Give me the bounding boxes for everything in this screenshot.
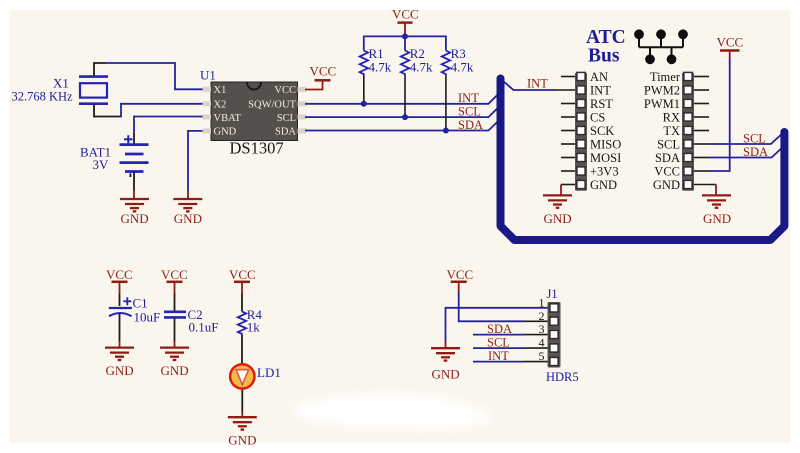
resistor R3 <box>442 51 450 76</box>
svg-text:GND: GND <box>703 211 731 226</box>
ground (left header) <box>560 185 562 196</box>
svg-text:VCC: VCC <box>274 85 296 96</box>
ground (U1) <box>173 199 202 211</box>
labels right header <box>644 70 681 192</box>
wire: INT to ATC header <box>503 81 556 91</box>
wire: crystal bottom to U1 X2 <box>94 104 121 117</box>
labels left header <box>590 70 621 192</box>
ground (LD1) <box>228 417 257 429</box>
battery BAT1 <box>120 145 149 172</box>
pins left header <box>577 72 585 188</box>
svg-text:+3V3: +3V3 <box>590 165 619 179</box>
wire: SCL net <box>305 106 500 117</box>
notch U1 <box>247 83 261 90</box>
svg-text:SDA: SDA <box>458 118 483 132</box>
resistor R4 <box>238 312 246 335</box>
header J1 bar <box>548 302 561 368</box>
svg-text:C1: C1 <box>133 296 148 311</box>
svg-text:SDA: SDA <box>487 322 512 336</box>
svg-text:GND: GND <box>544 211 572 226</box>
wire: BAT1 plus to U1 VBAT <box>134 116 203 118</box>
svg-text:GND: GND <box>106 363 134 378</box>
svg-text:SCK: SCK <box>590 124 614 138</box>
svg-text:AN: AN <box>590 70 608 84</box>
svg-text:INT: INT <box>458 91 479 105</box>
wire J1 pin1 to ground <box>446 308 548 341</box>
pin stubs left header <box>561 77 575 185</box>
svg-text:1k: 1k <box>247 320 261 335</box>
bus thick wire <box>501 79 785 241</box>
svg-text:MISO: MISO <box>590 138 621 152</box>
wire VCC to J1 pin2 <box>459 292 524 322</box>
wire: BAT1 minus to ground <box>133 172 135 191</box>
svg-text:LD1: LD1 <box>257 365 281 380</box>
plus sign BAT1 <box>124 135 133 143</box>
svg-text:SDA: SDA <box>743 145 768 159</box>
wire R4 to LED <box>241 335 243 364</box>
wire: U1 GND pin to ground <box>188 131 203 191</box>
header J3 right (ATC) bar <box>682 73 694 191</box>
svg-text:SDA: SDA <box>275 127 296 138</box>
svg-text:INT: INT <box>590 84 611 98</box>
wire C2 to ground <box>174 319 176 342</box>
junction R1/INT <box>361 101 367 107</box>
svg-text:VCC: VCC <box>106 267 133 282</box>
svg-text:5: 5 <box>539 349 545 363</box>
svg-text:PWM2: PWM2 <box>644 84 680 98</box>
svg-text:Timer: Timer <box>650 70 681 84</box>
svg-text:J1: J1 <box>547 287 558 301</box>
wire LED to ground <box>241 390 243 412</box>
ground (C2) <box>160 348 189 360</box>
svg-text:0.1uF: 0.1uF <box>189 320 219 335</box>
svg-text:32.768 KHz: 32.768 KHz <box>12 90 74 104</box>
svg-text:SCL: SCL <box>458 104 481 118</box>
svg-text:VCC: VCC <box>447 267 474 282</box>
svg-text:1: 1 <box>539 295 545 309</box>
svg-text:U1: U1 <box>200 68 216 83</box>
plus sign C1 <box>123 297 131 305</box>
wire SCL to J1 pin4 <box>473 347 524 349</box>
junction rail/R2 <box>402 33 408 39</box>
svg-text:INT: INT <box>488 349 509 363</box>
wire INT to J1 pin5 <box>473 361 524 363</box>
crystal X1 <box>79 77 108 104</box>
LED LD1 <box>230 364 254 388</box>
wire: SCL to right bus <box>709 133 783 144</box>
resistor R1 <box>360 51 368 76</box>
pin labels U1 <box>214 85 297 138</box>
op IC U1 DS1307 body <box>211 82 298 141</box>
power VCC (U1) <box>305 80 323 89</box>
svg-text:VCC: VCC <box>310 64 337 79</box>
svg-text:SCL: SCL <box>487 335 510 349</box>
wire SDA to J1 pin3 <box>473 334 524 336</box>
svg-text:VCC: VCC <box>717 35 744 50</box>
junction R2/SCL <box>402 114 408 120</box>
svg-text:RX: RX <box>663 111 680 125</box>
pins right header <box>684 72 692 188</box>
svg-text:GND: GND <box>121 211 149 226</box>
ground (right header) <box>715 185 717 196</box>
watermark blur <box>293 394 493 430</box>
svg-text:SCL: SCL <box>657 138 680 152</box>
power VCC (pullups) <box>404 23 406 35</box>
svg-text:VCC: VCC <box>229 267 256 282</box>
pins U1 right <box>298 87 307 134</box>
svg-text:PWM1: PWM1 <box>644 97 680 111</box>
pin numbers J1 <box>539 295 545 363</box>
svg-text:X1: X1 <box>53 76 69 91</box>
svg-text:X1: X1 <box>214 85 227 96</box>
svg-text:10uF: 10uF <box>134 310 161 325</box>
jumper pads <box>639 34 683 59</box>
svg-text:3: 3 <box>539 322 545 336</box>
wire: VCC rail over resistors <box>364 36 446 50</box>
svg-text:SQW/OUT: SQW/OUT <box>248 100 296 111</box>
ground (BAT1) <box>120 199 149 211</box>
pins U1 left <box>203 87 212 134</box>
svg-text:VBAT: VBAT <box>214 113 242 124</box>
svg-text:DS1307: DS1307 <box>230 139 284 158</box>
svg-text:SDA: SDA <box>655 151 680 165</box>
svg-text:4.7k: 4.7k <box>451 60 474 75</box>
svg-text:INT: INT <box>527 77 548 91</box>
pins J1 <box>550 304 558 366</box>
svg-text:GND: GND <box>174 211 202 226</box>
svg-text:VCC: VCC <box>654 165 680 179</box>
capacitor C2 <box>164 310 186 313</box>
svg-text:GND: GND <box>590 178 617 192</box>
minus tick BAT1 <box>129 173 131 177</box>
svg-text:VCC: VCC <box>392 7 419 22</box>
svg-text:CS: CS <box>590 111 605 125</box>
svg-text:GND: GND <box>161 363 189 378</box>
svg-text:TX: TX <box>663 124 680 138</box>
wire: SQW/OUT net INT <box>305 93 500 104</box>
svg-text:GND: GND <box>432 367 460 382</box>
svg-text:SCL: SCL <box>277 113 296 124</box>
svg-text:GND: GND <box>214 127 237 138</box>
wire: SDA to right bus <box>709 146 784 157</box>
svg-text:RST: RST <box>590 97 613 111</box>
svg-text:MOSI: MOSI <box>590 151 621 165</box>
svg-text:2: 2 <box>539 309 545 323</box>
svg-text:4: 4 <box>539 336 545 350</box>
svg-text:HDR5: HDR5 <box>546 370 579 384</box>
svg-text:3V: 3V <box>93 157 110 172</box>
wire: crystal top to U1 X1 <box>94 63 106 77</box>
pin stubs right header <box>694 77 716 185</box>
svg-text:GND: GND <box>653 178 680 192</box>
svg-text:4.7k: 4.7k <box>410 60 433 75</box>
wire C1 to ground <box>119 314 121 342</box>
header J2 left (ATC) bar <box>575 73 587 191</box>
svg-text:Bus: Bus <box>588 46 620 67</box>
svg-text:4.7k: 4.7k <box>369 60 392 75</box>
ground (C1) <box>105 348 134 360</box>
svg-text:SCL: SCL <box>743 132 766 146</box>
wire: SDA net <box>305 120 500 131</box>
capacitor C1 <box>109 307 132 309</box>
resistor R2 <box>401 51 409 76</box>
junction R3/SDA <box>443 128 449 134</box>
ground (J1) <box>431 348 460 360</box>
svg-text:VCC: VCC <box>161 267 188 282</box>
svg-text:X2: X2 <box>214 100 227 111</box>
svg-text:GND: GND <box>228 433 256 448</box>
